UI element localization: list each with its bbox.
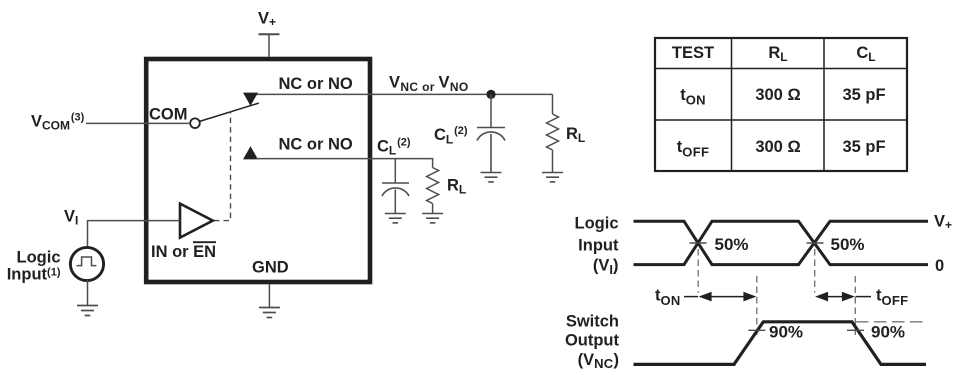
50% tick (second crossing) (807, 242, 824, 244)
svg-text:90%: 90% (769, 323, 803, 342)
svg-text:(VI): (VI) (593, 257, 619, 277)
wire bottom output (256, 159, 433, 168)
ground (top resistor) (542, 173, 563, 182)
wire V_COM input (86, 122, 190, 124)
capacitor C_L (top) lead (490, 94, 492, 127)
dashed line at rising 90% (756, 276, 758, 338)
svg-text:35 pF: 35 pF (842, 86, 885, 104)
svg-text:NC or NO: NC or NO (279, 135, 353, 153)
50% tick (first crossing) (690, 242, 707, 244)
svg-text:NC or NO: NC or NO (279, 75, 353, 93)
svg-text:90%: 90% (871, 323, 905, 342)
svg-text:Logic: Logic (17, 249, 61, 267)
buffer U2 IN/EN (180, 204, 213, 238)
t_OFF arrow (815, 292, 871, 302)
ground (GND pin) (259, 308, 280, 318)
contact triangle NC (down) (243, 93, 258, 106)
node junction dot (486, 90, 495, 99)
ground (bottom resistor) (422, 214, 443, 223)
test conditions table (655, 38, 907, 171)
COM pole circle (190, 118, 200, 128)
wire V_I input (88, 221, 181, 248)
switch output waveform (634, 322, 927, 365)
svg-text:Input: Input (578, 236, 619, 254)
wire top output (V_NC/V_NO net) (256, 93, 553, 95)
svg-text:Output: Output (565, 332, 620, 350)
capacitor C_L (bottom) (382, 159, 409, 214)
wire GND pin (268, 284, 270, 308)
dashed actuation line (214, 112, 231, 221)
logic input waveform line A (634, 221, 929, 264)
svg-text:0: 0 (935, 257, 944, 275)
dashed line at falling 90% (854, 276, 856, 338)
dashed line at second crossing (814, 249, 816, 293)
dashed line at first crossing (697, 249, 699, 293)
svg-text:300 Ω: 300 Ω (755, 86, 800, 104)
V+ supply pin wire (268, 34, 270, 57)
ground (logic input) (77, 306, 98, 316)
svg-text:50%: 50% (715, 235, 749, 254)
svg-text:50%: 50% (831, 235, 865, 254)
svg-text:300 Ω: 300 Ω (755, 138, 800, 156)
wire source to ground (87, 280, 89, 306)
dashed high-level line (856, 321, 927, 323)
svg-text:Logic: Logic (575, 214, 619, 232)
logic input source V1 (70, 247, 103, 280)
logic input waveform line B (634, 221, 929, 264)
resistor R_L (bottom) (427, 168, 439, 214)
t_ON arrow (684, 292, 756, 302)
resistor R_L (top) (547, 94, 559, 172)
svg-text:TEST: TEST (672, 44, 714, 62)
svg-text:Switch: Switch (566, 312, 619, 330)
capacitor C_L (top) plates (477, 128, 505, 173)
switch arm (199, 103, 259, 121)
ground (top cap) (481, 173, 502, 182)
90% tick (falling) (847, 329, 864, 331)
svg-text:35 pF: 35 pF (842, 138, 885, 156)
ground (bottom cap) (385, 214, 406, 223)
svg-text:COM: COM (149, 106, 188, 124)
V+ supply bar (259, 33, 280, 35)
90% tick (rising) (748, 329, 765, 331)
DUT box U1 (146, 59, 370, 282)
contact triangle NO (up) (243, 146, 258, 159)
svg-text:GND: GND (252, 259, 289, 277)
svg-text:IN or EN: IN or EN (151, 243, 216, 261)
pulse symbol (77, 257, 97, 266)
